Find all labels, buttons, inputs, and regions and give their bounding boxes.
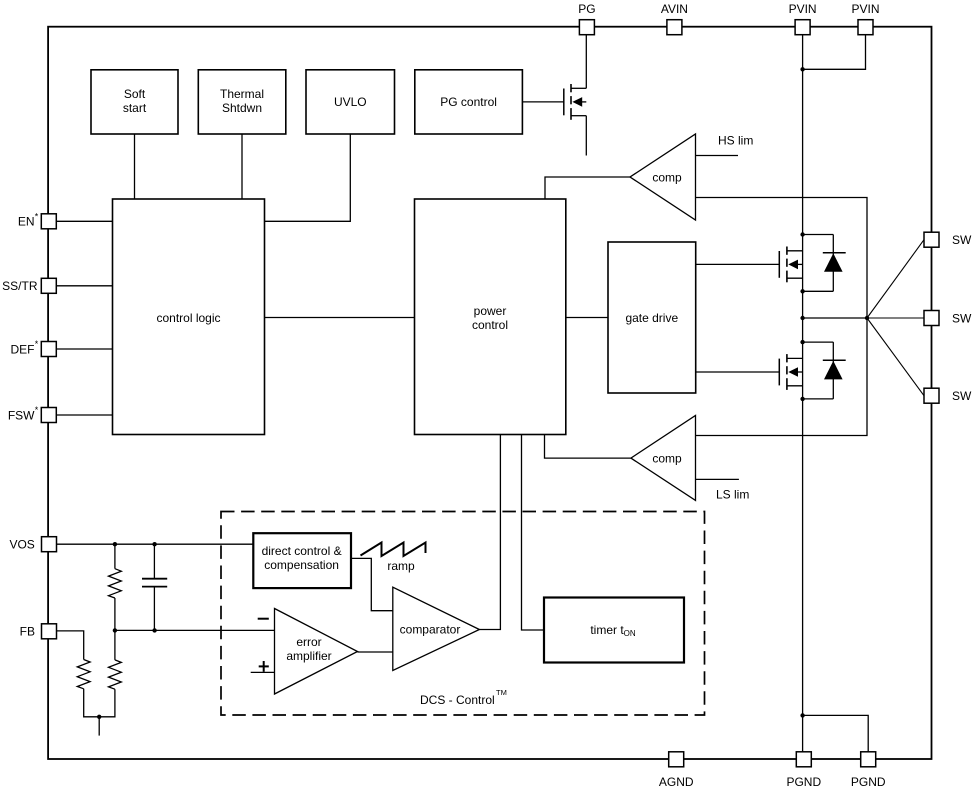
- svg-text:control: control: [472, 318, 508, 332]
- pin SW2: [924, 311, 972, 326]
- resistor R2 feedback bottom: [99, 630, 121, 716]
- node divider bottom junction: [97, 715, 101, 719]
- svg-text:LS lim: LS lim: [716, 487, 749, 501]
- svg-text:direct control &: direct control &: [262, 544, 342, 558]
- wire error amp output to comparator: [358, 651, 393, 653]
- pin VOS: [9, 537, 56, 552]
- op-amp comparator main: [393, 587, 480, 670]
- pin FB: [20, 624, 57, 639]
- wire SW fan to SW1: [867, 240, 924, 318]
- svg-text:start: start: [123, 101, 147, 115]
- wire HS comp output to power control: [545, 177, 630, 199]
- svg-text:comp: comp: [652, 451, 682, 465]
- svg-text:AVIN: AVIN: [661, 2, 688, 16]
- wire SW tap from rail: [803, 317, 867, 319]
- node HS lim input stub: [696, 134, 754, 156]
- wire comparator output to power control: [479, 435, 500, 630]
- wire DEF pin to control logic: [56, 348, 112, 350]
- svg-text:gate drive: gate drive: [625, 311, 678, 325]
- svg-text:FSW: FSW: [8, 408, 35, 422]
- node PVIN junction: [800, 67, 804, 71]
- wire LS comp output to power control: [545, 435, 631, 459]
- wire PGND2 to rail: [803, 715, 869, 752]
- svg-text:VOS: VOS: [9, 538, 34, 552]
- wire error amp plus input stub: [251, 671, 275, 673]
- wire FB sense line to error amplifier: [115, 629, 275, 631]
- svg-text:Soft: Soft: [124, 87, 146, 101]
- wire power control to timer: [522, 435, 545, 631]
- wire SS/TR pin to control logic: [56, 285, 112, 287]
- wire control logic to power control: [265, 317, 415, 319]
- block Soft start: [91, 70, 178, 134]
- resistor R3 FB branch: [77, 660, 99, 717]
- pin PG: [578, 2, 595, 35]
- node ramp waveform symbol: [361, 543, 426, 574]
- svg-text:PVIN: PVIN: [851, 2, 879, 16]
- svg-text:*: *: [35, 339, 39, 349]
- svg-text:SW: SW: [952, 389, 972, 403]
- wire soft start to control logic: [134, 134, 136, 199]
- node Q1 source junction: [800, 289, 804, 293]
- wire PVIN rail vertical: [802, 35, 804, 752]
- block control logic: [113, 199, 265, 435]
- node PGND junction: [800, 713, 804, 717]
- node SW fan junction: [865, 316, 869, 320]
- block UVLO: [306, 70, 395, 134]
- block power control: [415, 199, 566, 435]
- svg-text:SW: SW: [952, 311, 972, 325]
- op-amp error amplifier: [275, 609, 358, 695]
- capacitor C1 feedforward: [142, 544, 167, 630]
- wire direct control output to comparator: [351, 558, 393, 610]
- svg-text:PGND: PGND: [851, 775, 886, 789]
- svg-text:PG: PG: [578, 2, 595, 16]
- svg-text:AGND: AGND: [659, 775, 694, 789]
- node FB-R junction: [113, 628, 117, 632]
- wire SW fan to SW3: [867, 318, 924, 396]
- pin SW1: [924, 232, 972, 247]
- node Q2 drain junction: [800, 340, 804, 344]
- block timer tON: [544, 598, 684, 663]
- svg-text:control logic: control logic: [156, 311, 220, 325]
- wire VOS line: [57, 543, 254, 545]
- node DCS-Control dashed boundary: [221, 512, 705, 716]
- node Q1 drain junction: [800, 232, 804, 236]
- resistor R1 feedback top: [109, 544, 122, 630]
- svg-text:comp: comp: [652, 170, 682, 184]
- svg-text:*: *: [35, 405, 39, 415]
- svg-text:EN: EN: [18, 215, 35, 229]
- svg-text:SW: SW: [952, 233, 972, 247]
- wire FB pin branch: [57, 631, 84, 660]
- pin PVIN right: [851, 2, 879, 35]
- wire gate drive to LS FET gate: [696, 371, 780, 373]
- diode D1 body diode of Q1: [803, 235, 846, 292]
- wire PG pin to transistor drain: [585, 35, 587, 89]
- svg-text:compensation: compensation: [264, 558, 339, 572]
- svg-text:DCS - Control: DCS - Control: [420, 693, 495, 707]
- node rail SW tap: [800, 316, 804, 320]
- svg-text:PGND: PGND: [786, 775, 821, 789]
- svg-text:HS lim: HS lim: [718, 134, 753, 148]
- block gate drive: [608, 242, 696, 393]
- block Thermal Shtdwn: [198, 70, 285, 134]
- svg-text:UVLO: UVLO: [334, 95, 367, 109]
- node VOS-C1 junction: [152, 542, 156, 546]
- svg-text:comparator: comparator: [400, 623, 461, 637]
- wire SW fan to SW2: [867, 317, 924, 319]
- svg-text:*: *: [35, 212, 39, 222]
- svg-text:PG control: PG control: [440, 95, 497, 109]
- node FB-C junction: [152, 628, 156, 632]
- svg-text:amplifier: amplifier: [286, 649, 331, 663]
- op-amp comparator LS current limit: [631, 416, 696, 501]
- pin PGND1: [786, 752, 821, 789]
- pin PVIN left: [789, 2, 817, 35]
- wire thermal shtdwn to control logic: [241, 134, 243, 199]
- pin FSW: [8, 405, 56, 422]
- wire PG transistor source open end: [585, 116, 587, 156]
- op-amp comparator HS current limit: [630, 134, 696, 220]
- wire power stage sense rectangle: [696, 198, 868, 436]
- pin SS/TR: [2, 278, 56, 293]
- wire PVIN2 to rail: [803, 35, 866, 70]
- node LS lim input stub: [696, 479, 750, 501]
- svg-text:Thermal: Thermal: [220, 87, 264, 101]
- pin SW3: [924, 388, 972, 403]
- svg-text:DEF: DEF: [11, 342, 35, 356]
- wire FSW pin to control logic: [56, 414, 112, 416]
- block PG control: [415, 70, 523, 134]
- svg-text:ramp: ramp: [387, 559, 415, 573]
- wire EN pin to control logic: [56, 220, 112, 222]
- node VOS-R1 junction: [113, 542, 117, 546]
- svg-text:SS/TR: SS/TR: [2, 279, 38, 293]
- node error amp minus sign: [258, 618, 269, 620]
- transistor Q1 high-side NMOS: [779, 247, 802, 283]
- wire UVLO to control logic: [265, 134, 351, 221]
- svg-text:FB: FB: [20, 625, 35, 639]
- wire power control to gate drive: [566, 317, 608, 319]
- wire ground stub: [98, 717, 100, 736]
- diode D2 body diode of Q2: [803, 342, 846, 399]
- svg-text:PVIN: PVIN: [789, 2, 817, 16]
- pin EN: [18, 212, 56, 229]
- pin AGND: [659, 752, 694, 789]
- svg-text:TM: TM: [496, 688, 507, 697]
- svg-text:Shtdwn: Shtdwn: [222, 101, 262, 115]
- transistor PG open-drain MOSFET: [564, 84, 587, 120]
- pin DEF: [11, 339, 57, 356]
- pin PGND2: [851, 752, 886, 789]
- svg-text:error: error: [296, 635, 321, 649]
- wire PG control to PG transistor gate: [522, 101, 563, 103]
- transistor Q2 low-side NMOS: [779, 354, 802, 390]
- node error amp plus sign: [259, 661, 269, 672]
- block direct control and compensation: [253, 533, 351, 588]
- node DCS-Control label: [420, 688, 507, 707]
- node Q2 source junction: [800, 397, 804, 401]
- pin AVIN: [661, 2, 688, 35]
- svg-text:power: power: [474, 304, 507, 318]
- wire gate drive to HS FET gate: [696, 263, 780, 265]
